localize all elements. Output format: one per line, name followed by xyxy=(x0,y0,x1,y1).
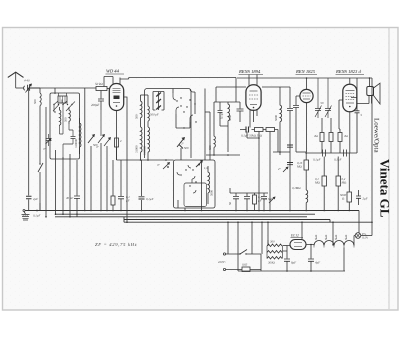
svg-text:ZF = 429,75 kHz: ZF = 429,75 kHz xyxy=(95,242,137,247)
inner vertical in box xyxy=(177,200,179,208)
vertical x127 to bus E xyxy=(126,160,128,222)
scan edge line right xyxy=(388,28,390,309)
wire top from anode xyxy=(235,78,237,103)
ground xyxy=(24,212,26,215)
svg-text:310000: 310000 xyxy=(74,139,78,149)
RF coil unit box xyxy=(50,93,80,159)
svg-text:0,1A: 0,1A xyxy=(362,236,368,240)
IF transformer box xyxy=(174,160,216,208)
speaker top feed xyxy=(369,78,371,87)
coupling caps row y153 xyxy=(307,150,358,157)
top wire tube2 to IF2 xyxy=(262,87,290,95)
wire horizontals mid-right xyxy=(296,151,306,153)
svg-text:µF: µF xyxy=(126,199,130,203)
coil LW in box xyxy=(60,107,61,126)
AVC arrow xyxy=(283,167,288,172)
resistor boxes row y135 xyxy=(320,133,324,142)
tuning arrow left xyxy=(88,135,94,143)
svg-text:200pF: 200pF xyxy=(91,103,99,107)
osc drop column with cap xyxy=(141,160,143,211)
dropper resistor stack xyxy=(267,244,282,247)
svg-text:MΩ: MΩ xyxy=(314,181,321,185)
cathode cap on 357 xyxy=(355,111,360,153)
coil L1 antenna xyxy=(40,88,41,108)
vertical coil 500 xyxy=(214,102,215,155)
svg-text:Vineta GL: Vineta GL xyxy=(378,159,393,218)
tube RENS1823d xyxy=(343,84,357,112)
left column coil xyxy=(306,190,308,211)
wave trap trimmer cap xyxy=(46,134,52,146)
capacitor 2uF xyxy=(26,196,32,198)
resistor 0.1M xyxy=(322,176,327,186)
osc coil column 2 lower xyxy=(148,127,150,160)
cap col mid xyxy=(118,160,124,211)
svg-text:500: 500 xyxy=(184,146,189,150)
svg-text:1,0: 1,0 xyxy=(204,166,208,170)
connecting wires resistor row xyxy=(240,129,278,131)
resistor col mid xyxy=(111,196,115,205)
IF box verticals to bus xyxy=(185,160,202,211)
antenna xyxy=(8,72,24,77)
verticals from bus to power xyxy=(228,222,268,271)
top wire osc xyxy=(141,94,149,96)
resistor 5000 xyxy=(347,192,352,202)
rectifier tube xyxy=(290,240,306,250)
wire tube left top xyxy=(104,77,113,87)
wire 50k to tube xyxy=(107,88,109,90)
coupling net top wire xyxy=(214,101,240,103)
speaker box xyxy=(367,87,374,96)
trimmer caps right of tube xyxy=(315,78,322,118)
resistor mid xyxy=(253,195,257,204)
lamp to right vertical xyxy=(361,235,372,237)
tube leads xyxy=(339,78,350,153)
antenna coupling cap C1 variable xyxy=(24,85,40,91)
AVC cap 1 xyxy=(287,145,293,147)
vertical right of osc stub xyxy=(205,111,210,113)
bus1 to lamp vertical xyxy=(358,211,360,233)
svg-text:EL12: EL12 xyxy=(290,234,299,238)
box1 inner wires xyxy=(54,93,73,136)
svg-text:310000: 310000 xyxy=(143,146,147,156)
svg-text:31000: 31000 xyxy=(135,145,139,153)
svg-text:5kΩ: 5kΩ xyxy=(324,234,328,240)
svg-text:REN 1825: REN 1825 xyxy=(295,69,316,74)
svg-text:40 pF: 40 pF xyxy=(66,196,73,200)
coil sec on box edge xyxy=(80,118,81,154)
cap 5uF xyxy=(261,193,267,211)
bus line E xyxy=(124,217,372,222)
bus line D xyxy=(124,220,330,223)
coil with core in box xyxy=(58,96,67,103)
pickup contact left of box xyxy=(163,163,169,169)
svg-text:5kΩ: 5kΩ xyxy=(334,234,338,240)
bottom power wire xyxy=(238,270,345,272)
left verticals to bus xyxy=(85,88,91,211)
bus line A xyxy=(25,210,359,212)
wire into tube2 top xyxy=(216,87,246,102)
volume arrow lower xyxy=(269,197,275,203)
osc switch frame wires xyxy=(173,89,210,161)
resistor column xyxy=(115,138,119,147)
top B+ wire xyxy=(237,77,372,79)
contact hooks in box xyxy=(177,165,195,183)
svg-text:5000: 5000 xyxy=(210,190,214,197)
tube WD44 bottom lead xyxy=(117,97,128,160)
verticals into bus from left section xyxy=(39,203,41,211)
tube RENS1894 xyxy=(246,85,261,111)
osc coil column 1 xyxy=(141,95,143,127)
resistor row under tube: cap 0.1uF xyxy=(246,127,249,133)
rectifier leads xyxy=(287,245,314,246)
lower caps row mid xyxy=(233,193,239,211)
mid row top wire xyxy=(230,188,268,193)
cap 4uF xyxy=(308,245,314,272)
tuning cap arrow osc xyxy=(177,138,184,148)
speaker coil leads xyxy=(357,96,372,104)
B+ feed from rectifier to bus xyxy=(301,222,303,239)
tube REN1825 xyxy=(300,89,313,102)
AVC divider column xyxy=(269,138,271,211)
wire to RF box and grid resistor xyxy=(34,88,96,94)
vertical drops to bus xyxy=(247,130,278,211)
grid leak path with arrow xyxy=(98,110,104,143)
IF2 cap xyxy=(287,95,293,125)
grid cap REN1825 xyxy=(293,106,299,153)
svg-text:4-40: 4-40 xyxy=(24,79,30,83)
coil MW in box xyxy=(69,107,70,124)
svg-text:5000: 5000 xyxy=(228,115,232,122)
antenna earth terminal xyxy=(23,210,25,212)
svg-text:50 kΩ: 50 kΩ xyxy=(95,82,103,86)
inner shield box xyxy=(184,183,207,207)
svg-text:300: 300 xyxy=(270,240,275,244)
volume pot arrow xyxy=(104,138,110,146)
bottom wire IF2 xyxy=(273,125,290,211)
svg-text:500: 500 xyxy=(208,145,212,150)
40pF cap on bus xyxy=(74,160,80,217)
svg-text:0,1MΩ: 0,1MΩ xyxy=(292,186,301,190)
box1 inner cap xyxy=(63,137,76,160)
bus junction dots xyxy=(36,210,38,212)
resistor 50k xyxy=(96,87,107,91)
cap 8uF xyxy=(284,246,290,272)
svg-text:500: 500 xyxy=(135,114,139,119)
osc coil column 1 lower xyxy=(141,127,143,160)
AVC cap 2 xyxy=(287,163,293,165)
right long vertical from B+ xyxy=(371,78,373,236)
wire antenna to coupler xyxy=(16,87,24,89)
tube WD44 top leads xyxy=(113,77,120,85)
dial lamp xyxy=(355,233,361,239)
switch S1 xyxy=(38,163,43,172)
svg-text:50: 50 xyxy=(228,202,232,206)
left column resistors xyxy=(304,160,309,170)
bottom wire osc section xyxy=(117,159,174,161)
capacitor 200pF xyxy=(98,91,104,111)
svg-text:0,1µF: 0,1µF xyxy=(313,158,321,162)
svg-text:500: 500 xyxy=(64,117,68,122)
svg-text:5µF: 5µF xyxy=(268,197,273,201)
svg-text:MΩ: MΩ xyxy=(341,181,348,185)
svg-text:0,1µF: 0,1µF xyxy=(334,158,342,162)
verticals right below bus xyxy=(332,222,334,244)
osc unit box outline xyxy=(145,89,192,159)
mains switch xyxy=(226,250,261,255)
bottom coupling wire xyxy=(206,126,240,155)
svg-text:500: 500 xyxy=(33,99,37,104)
anode line to output tube xyxy=(351,78,357,111)
tube REN1825 leads xyxy=(296,78,307,152)
speaker cone xyxy=(374,83,381,104)
svg-text:5000: 5000 xyxy=(274,115,278,122)
wire choke to lamp xyxy=(354,236,355,246)
svg-text:8µF: 8µF xyxy=(291,261,296,265)
svg-text:RENS 1823 d: RENS 1823 d xyxy=(335,69,361,74)
vertical wire from L1 with switch xyxy=(39,108,41,211)
anode top wire long to right xyxy=(120,78,236,80)
svg-text:500: 500 xyxy=(93,143,98,147)
svg-text:50: 50 xyxy=(321,101,325,105)
resistor 0.2M xyxy=(336,176,341,186)
svg-text:MΩ: MΩ xyxy=(296,165,303,169)
svg-text:RENS 1894: RENS 1894 xyxy=(238,69,261,74)
osc coil column 2 xyxy=(148,95,149,127)
vertical choke mid to bottom xyxy=(343,248,345,272)
svg-text:5kΩ: 5kΩ xyxy=(344,234,348,240)
IF2 primary coil right of tube xyxy=(280,95,282,152)
svg-text:500 pF: 500 pF xyxy=(150,113,159,117)
svg-text:0,63: 0,63 xyxy=(242,263,248,267)
svg-text:0,1µF: 0,1µF xyxy=(33,214,40,218)
padder trimmer stack xyxy=(153,92,164,111)
band switch contacts right xyxy=(190,89,195,122)
fuse xyxy=(226,269,242,271)
svg-text:2µF: 2µF xyxy=(363,197,368,201)
svg-text:4µF: 4µF xyxy=(315,261,320,265)
vertical wire mid xyxy=(180,148,182,160)
band switch contacts xyxy=(53,104,54,105)
svg-text:WD 44: WD 44 xyxy=(106,69,120,74)
tube WD44 xyxy=(109,84,123,111)
band switch contacts middle xyxy=(173,93,179,114)
cap 2uF right xyxy=(356,190,361,205)
cap 0.1uF vertical xyxy=(218,102,223,126)
svg-text:360Ω: 360Ω xyxy=(268,261,276,265)
svg-text:220V~: 220V~ xyxy=(218,260,226,264)
svg-text:0,1µF: 0,1µF xyxy=(146,197,154,201)
bus line C xyxy=(55,216,307,218)
resistor 5k xyxy=(266,128,275,132)
trimmer arrows in box xyxy=(53,105,72,112)
coil 5000 xyxy=(228,102,230,152)
label leads xyxy=(249,75,257,86)
svg-text:5kΩ: 5kΩ xyxy=(314,234,318,240)
long vertical wire left (earth line) xyxy=(28,88,30,211)
svg-text:0,1µF: 0,1µF xyxy=(220,112,224,119)
bus line B xyxy=(55,213,315,215)
svg-text:2µF: 2µF xyxy=(33,197,38,201)
svg-text:Loewe/Opta: Loewe/Opta xyxy=(373,118,381,153)
mains terminals xyxy=(223,253,225,255)
wires from box to bus xyxy=(46,107,70,217)
resistor 50k xyxy=(255,128,264,132)
filter chokes xyxy=(314,241,354,246)
bus junction dots extra xyxy=(84,210,86,212)
coil in IF box xyxy=(208,166,210,204)
tube RENS1894 bottom leads xyxy=(250,110,257,128)
cap to grid xyxy=(237,102,244,122)
pickup arrow 2 at IF box corner xyxy=(196,161,202,167)
